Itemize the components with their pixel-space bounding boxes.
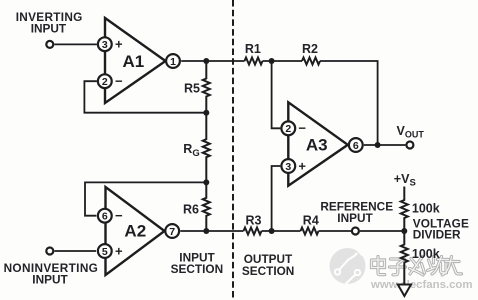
- resistor RG: [203, 113, 210, 183]
- wire A2 pin 6 feedback to RG/R6 node: [85, 182, 206, 215]
- wire R4 to reference input terminal: [319, 230, 352, 232]
- node A3 output junction: [375, 142, 381, 148]
- svg-text:3: 3: [102, 39, 108, 51]
- svg-text:www.elecfans.com: www.elecfans.com: [370, 279, 473, 291]
- resistor 100k upper: [401, 187, 408, 232]
- label NONINVERTING INPUT: [4, 261, 99, 287]
- svg-text:2: 2: [285, 123, 291, 135]
- A1 pin 2: [98, 74, 112, 88]
- inverting input terminal: [46, 41, 53, 48]
- wire A3 pin 6 to VOUT: [364, 144, 406, 146]
- resistor R1: [245, 58, 263, 65]
- wire A1 pin 2 feedback to R5/RG node: [84, 81, 206, 113]
- node R3/R4/A3 pin3 junction: [269, 228, 275, 234]
- svg-text:100k: 100k: [412, 202, 440, 216]
- A1 pin 3: [98, 37, 112, 51]
- node R6/pin7 wire junction: [203, 228, 209, 234]
- node pin1/R5 junction: [203, 58, 209, 64]
- A3 pin 6: [349, 138, 363, 152]
- node voltage divider junction: [401, 228, 407, 234]
- svg-text:R2: R2: [302, 42, 318, 56]
- svg-text:R6: R6: [183, 202, 199, 216]
- svg-text:SECTION: SECTION: [171, 262, 223, 276]
- resistor R2: [302, 58, 320, 65]
- resistor R6: [203, 182, 210, 231]
- svg-text:−: −: [115, 208, 123, 223]
- svg-text:A2: A2: [124, 221, 146, 240]
- svg-text:100k: 100k: [412, 247, 440, 261]
- wire R1 node down to A3 pin 2: [272, 61, 281, 128]
- svg-text:−: −: [115, 73, 123, 88]
- label INVERTING INPUT: [16, 10, 83, 35]
- svg-text:INPUT: INPUT: [32, 272, 68, 286]
- label VOLTAGE DIVIDER: [413, 216, 469, 241]
- A3 pin 3: [281, 159, 295, 173]
- svg-text:INPUT: INPUT: [31, 22, 67, 36]
- wire R2 to A3 output node (feedback): [320, 61, 378, 145]
- A2 pin 7: [165, 224, 179, 238]
- svg-text:−: −: [298, 121, 306, 136]
- svg-text:2: 2: [102, 76, 108, 88]
- svg-text:R1: R1: [245, 42, 261, 56]
- svg-text:6: 6: [102, 211, 108, 223]
- wire inverting input to A1 pin 3: [54, 43, 97, 45]
- wire A2 pin 7 output to R3: [180, 230, 243, 232]
- svg-text:SECTION: SECTION: [242, 264, 294, 278]
- svg-text:1: 1: [170, 56, 176, 68]
- node R1/A3 pin2 junction: [269, 58, 275, 64]
- wire R1 to R2: [263, 60, 303, 62]
- svg-text:+: +: [298, 158, 306, 173]
- A3 pin 2: [281, 121, 295, 135]
- svg-text:6: 6: [353, 140, 359, 152]
- label OUTPUT SECTION: [242, 252, 294, 278]
- VOUT terminal: [406, 142, 413, 149]
- svg-text:5: 5: [102, 246, 108, 258]
- wire R3 to R4: [262, 230, 301, 232]
- wire A1 pin 1 output to R1: [181, 60, 244, 62]
- node RG/R6 junction: [203, 179, 209, 185]
- noninverting input terminal: [46, 248, 53, 255]
- resistor R4: [301, 228, 319, 235]
- svg-text:INPUT: INPUT: [337, 211, 373, 225]
- A1 pin 1: [166, 54, 180, 68]
- wire noninverting input to A2 pin 5: [54, 250, 96, 252]
- svg-text:3: 3: [285, 161, 291, 173]
- reference input terminal: [352, 228, 359, 235]
- label REFERENCE INPUT: [320, 200, 393, 226]
- resistor 100k lower: [401, 231, 408, 285]
- svg-text:+: +: [115, 37, 123, 52]
- resistor R5: [203, 61, 210, 113]
- op-amp A3 triangle: [288, 102, 348, 185]
- label INPUT SECTION: [171, 250, 223, 275]
- svg-text:DIVIDER: DIVIDER: [413, 227, 461, 241]
- svg-text:R5: R5: [184, 82, 200, 96]
- A2 pin 6: [98, 209, 112, 223]
- wire A3 pin 3 down to R3/R4 node: [272, 166, 281, 231]
- svg-text:A1: A1: [123, 52, 145, 71]
- op-amp A1 triangle: [105, 18, 166, 103]
- resistor R3: [244, 228, 262, 235]
- A2 pin 5: [98, 244, 112, 258]
- section divider dashed line: [232, 0, 234, 300]
- svg-text:+: +: [115, 243, 123, 258]
- wire reference terminal to voltage divider node: [360, 230, 405, 232]
- svg-text:R3: R3: [246, 213, 262, 227]
- watermark logo circle: [330, 244, 366, 284]
- svg-text:A3: A3: [306, 136, 328, 155]
- svg-text:7: 7: [169, 226, 175, 238]
- negative supply arrow: [398, 285, 411, 297]
- node R5/RG junction: [203, 110, 209, 116]
- op-amp A2 triangle: [106, 187, 165, 275]
- svg-text:R4: R4: [303, 213, 319, 227]
- watermark chinese text 电子发烧友: [372, 257, 462, 276]
